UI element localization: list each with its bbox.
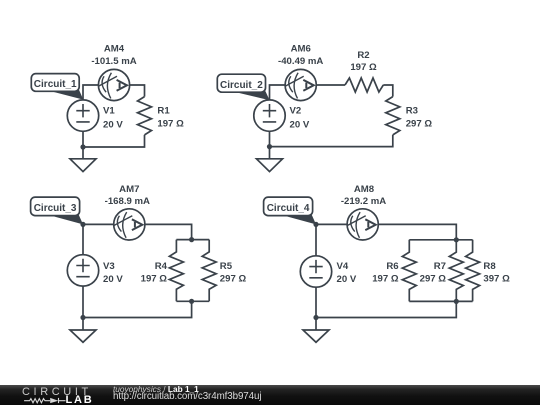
wire V4 bottom to ground — [315, 287, 317, 330]
wire bottom rail circuit 4 — [409, 300, 472, 302]
node Circuit_1 callout — [31, 74, 83, 100]
svg-text:AM8: AM8 — [354, 184, 375, 195]
wire R2 to R3 top — [383, 85, 393, 97]
svg-text:20 V: 20 V — [337, 274, 357, 285]
svg-text:-219.2 mA: -219.2 mA — [341, 196, 386, 207]
node Circuit_3 callout — [31, 197, 83, 224]
ground circuit 2 — [257, 159, 283, 172]
svg-text:20 V: 20 V — [103, 120, 123, 131]
voltage source V4 — [300, 256, 331, 287]
wire R3 bottom to node — [270, 135, 393, 147]
junction dot rail bottom circuit 3 — [189, 299, 194, 304]
footer url line — [113, 391, 261, 403]
wire node A to AM7 — [83, 223, 114, 225]
svg-text:297 Ω: 297 Ω — [420, 273, 447, 284]
node Circuit_2 callout — [217, 74, 269, 100]
ammeter A glyph AM7 — [132, 219, 142, 230]
ammeter A glyph AM8 — [365, 219, 375, 230]
resistor R8 — [466, 240, 480, 302]
ground circuit 1 — [70, 159, 96, 172]
svg-text:197 Ω: 197 Ω — [157, 119, 184, 130]
resistor R5 — [202, 240, 216, 302]
wire rail to ground node circuit 3 — [83, 301, 192, 317]
svg-text:R1: R1 — [157, 106, 170, 117]
resistor R7 — [449, 240, 463, 302]
svg-text:V2: V2 — [290, 106, 302, 117]
ammeter AM8 — [347, 209, 378, 240]
wire V2 top to AM6 — [270, 85, 286, 100]
wire AM4 to R1 top — [130, 85, 145, 97]
svg-text:-101.5 mA: -101.5 mA — [91, 56, 136, 67]
ammeter AM7 — [114, 209, 145, 240]
junction dot circuit 2 — [267, 144, 272, 149]
resistor R3 — [386, 97, 400, 135]
svg-text:V4: V4 — [337, 261, 349, 272]
svg-text:197 Ω: 197 Ω — [372, 273, 399, 284]
wire node B to AM8 — [316, 223, 347, 225]
svg-text:AM6: AM6 — [291, 43, 311, 54]
resistor R1 — [138, 97, 152, 135]
svg-text:V1: V1 — [103, 106, 115, 117]
wire V2 bottom to ground — [269, 131, 271, 159]
footer title line — [113, 385, 199, 395]
svg-text:Circuit_1: Circuit_1 — [34, 79, 77, 90]
wire AM8 to parallel rail circuit 4 — [378, 224, 456, 239]
node B junction dot — [313, 222, 318, 227]
svg-text:197 Ω: 197 Ω — [350, 62, 377, 73]
svg-text:397 Ω: 397 Ω — [483, 273, 510, 284]
svg-text:R5: R5 — [220, 261, 233, 272]
ammeter A glyph AM4 — [117, 80, 127, 91]
voltage source V1 — [67, 100, 98, 131]
ammeter AM4 — [98, 69, 129, 100]
svg-text:Circuit_4: Circuit_4 — [267, 203, 310, 214]
svg-text:197 Ω: 197 Ω — [141, 273, 168, 284]
junction dot rail top circuit 4 — [454, 237, 459, 242]
wire R1 bottom to node — [83, 135, 145, 147]
voltage source V2 — [254, 100, 285, 131]
ground circuit 3 — [70, 330, 96, 342]
svg-text:LAB: LAB — [66, 394, 94, 405]
svg-text:R2: R2 — [357, 50, 369, 61]
svg-text:20 V: 20 V — [103, 274, 123, 285]
ammeter A glyph AM6 — [303, 80, 313, 91]
CircuitLab logo — [0, 385, 100, 405]
node Circuit_4 callout — [264, 197, 316, 224]
footer bar — [0, 385, 540, 405]
svg-text:Circuit_3: Circuit_3 — [34, 203, 77, 214]
wire V1 bottom to ground — [82, 131, 84, 159]
svg-text:297 Ω: 297 Ω — [220, 273, 247, 284]
wire node B to V4 top — [315, 224, 317, 255]
junction dot ground circuit 3 — [80, 315, 85, 320]
svg-text:R7: R7 — [434, 261, 446, 272]
junction dot rail bottom circuit 4 — [454, 299, 459, 304]
ammeter AM6 — [285, 69, 316, 100]
wire top rail circuit 3 — [176, 239, 209, 241]
svg-text:297 Ω: 297 Ω — [406, 119, 433, 130]
junction dot circuit 1 — [80, 144, 85, 149]
junction dot rail top circuit 3 — [189, 237, 194, 242]
wire AM7 to parallel rail — [145, 224, 192, 239]
svg-text:V3: V3 — [103, 261, 115, 272]
wire AM6 to R2 — [316, 84, 345, 86]
junction dot ground circuit 4 — [313, 315, 318, 320]
svg-text:R3: R3 — [406, 106, 418, 117]
svg-text:-168.9 mA: -168.9 mA — [105, 196, 150, 207]
resistor R2 — [345, 78, 383, 92]
svg-text:R4: R4 — [155, 261, 168, 272]
wire node A to V3 top — [82, 224, 84, 254]
resistor R6 — [402, 240, 416, 302]
wire top rail circuit 4 — [409, 239, 472, 241]
wire V1 top to AM4 — [83, 85, 98, 100]
ground circuit 4 — [303, 330, 329, 342]
wire V3 bottom to ground — [82, 286, 84, 330]
wire rail to ground node circuit 4 — [316, 301, 456, 317]
svg-text:AM4: AM4 — [104, 43, 125, 54]
svg-text:R8: R8 — [483, 261, 496, 272]
resistor R4 — [169, 240, 183, 302]
wire bottom rail circuit 3 — [176, 300, 209, 302]
svg-text:-40.49 mA: -40.49 mA — [278, 56, 323, 67]
svg-text:20 V: 20 V — [290, 120, 310, 131]
svg-text:Circuit_2: Circuit_2 — [220, 80, 263, 91]
svg-text:R6: R6 — [386, 261, 398, 272]
voltage source V3 — [67, 255, 98, 286]
node A junction dot — [80, 222, 85, 227]
svg-text:AM7: AM7 — [119, 184, 139, 195]
